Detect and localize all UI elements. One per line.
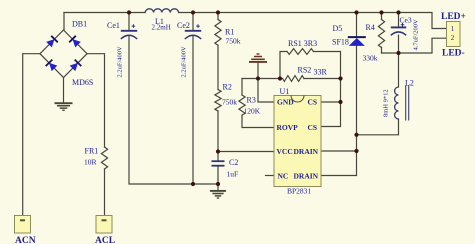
svg-text:2.2mH: 2.2mH: [152, 24, 171, 32]
svg-text:BP2831: BP2831: [287, 187, 311, 196]
svg-text:C2: C2: [229, 158, 238, 167]
svg-text:2: 2: [451, 34, 455, 42]
svg-text:D5: D5: [333, 24, 343, 33]
svg-text:750k: 750k: [226, 37, 241, 46]
svg-text:8mH 9*12: 8mH 9*12: [383, 89, 390, 117]
svg-text:Ce1: Ce1: [107, 21, 120, 30]
svg-text:2.2uF/400V: 2.2uF/400V: [117, 46, 124, 78]
svg-text:Ce2: Ce2: [177, 21, 190, 30]
svg-text:10R: 10R: [84, 158, 97, 167]
svg-text:ROVP: ROVP: [277, 123, 299, 132]
svg-text:RS1 3R3: RS1 3R3: [288, 39, 317, 48]
svg-text:MD6S: MD6S: [72, 78, 93, 87]
svg-text:R4: R4: [366, 23, 375, 32]
svg-text:U1: U1: [280, 87, 290, 96]
svg-text:120K: 120K: [244, 107, 261, 116]
svg-text:RS2: RS2: [298, 66, 312, 75]
svg-text:750k: 750k: [222, 98, 237, 107]
svg-text:DRAIN: DRAIN: [294, 147, 319, 156]
svg-text:NC: NC: [278, 172, 289, 181]
svg-text:FR1: FR1: [85, 147, 99, 156]
svg-text:33R: 33R: [314, 68, 328, 77]
svg-text:2.2uF/400V: 2.2uF/400V: [181, 46, 188, 78]
svg-text:1: 1: [451, 25, 455, 33]
svg-text:DB1: DB1: [72, 20, 87, 29]
svg-text:R2: R2: [223, 83, 232, 92]
svg-text:GND: GND: [277, 98, 294, 107]
svg-text:LED-: LED-: [442, 49, 465, 59]
svg-text:ACL: ACL: [95, 236, 115, 244]
svg-text:CS: CS: [308, 123, 318, 132]
svg-text:1uF: 1uF: [227, 170, 239, 179]
svg-text:4.7uF/200V: 4.7uF/200V: [413, 19, 420, 51]
svg-text:Ce3: Ce3: [400, 16, 412, 25]
svg-text:ACN: ACN: [15, 236, 36, 244]
svg-text:CS: CS: [308, 98, 318, 107]
svg-text:R1: R1: [225, 28, 234, 37]
svg-text:SF18: SF18: [332, 38, 349, 47]
svg-text:R3: R3: [247, 96, 256, 105]
svg-text:VCC: VCC: [277, 147, 293, 156]
svg-text:LED+: LED+: [441, 12, 466, 22]
svg-text:DRAIN: DRAIN: [294, 172, 319, 181]
svg-text:330k: 330k: [363, 54, 378, 63]
svg-text:L2: L2: [405, 79, 414, 88]
